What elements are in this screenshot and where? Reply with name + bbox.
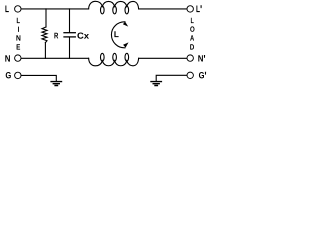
inductor top winding loop 3 bbox=[125, 6, 129, 14]
resistor R1 zigzag bbox=[42, 27, 47, 43]
inductor top winding loop 1 bbox=[101, 6, 105, 14]
label term-Np-p bbox=[204, 55, 205, 58]
coupling arrowhead bottom bbox=[123, 42, 128, 47]
terminal N bbox=[15, 55, 21, 61]
wire top rail left (L to choke) bbox=[21, 8, 89, 10]
inductor top winding humps bbox=[89, 1, 139, 9]
label load-D bbox=[190, 44, 194, 49]
wire ground right (G' to earth) bbox=[156, 75, 187, 81]
terminal G' bbox=[187, 72, 193, 78]
capacitor Cx top plate bbox=[64, 32, 75, 34]
label lbl-Cx bbox=[77, 33, 89, 39]
label term-Gp-p bbox=[205, 72, 206, 75]
coupling arrowhead top bbox=[123, 22, 128, 27]
terminal G bbox=[15, 72, 21, 78]
inductor bottom winding loop 1 bbox=[101, 53, 105, 61]
terminal L bbox=[15, 6, 21, 12]
label term-Lp-p bbox=[201, 5, 202, 8]
inductor bottom winding loop 2 bbox=[113, 53, 117, 61]
label line-N bbox=[16, 35, 20, 40]
inductor bottom winding humps bbox=[89, 58, 139, 66]
resistor R1 leads bbox=[44, 9, 47, 58]
label term-Np-N bbox=[198, 55, 203, 61]
inductor bottom winding loop 3 bbox=[125, 53, 129, 61]
capacitor Cx bottom plate bbox=[64, 36, 75, 38]
wire ground left (G to earth) bbox=[21, 75, 56, 81]
capacitor Cx leads bbox=[69, 9, 71, 58]
label load-A bbox=[190, 35, 194, 40]
terminal L' bbox=[187, 6, 193, 12]
label line-I bbox=[17, 27, 20, 32]
terminal N' bbox=[187, 55, 193, 61]
ground symbol right bbox=[151, 82, 161, 86]
label line-E bbox=[17, 44, 21, 49]
wire bottom rail left (N to choke) bbox=[21, 57, 89, 59]
label load-O bbox=[190, 26, 194, 31]
label term-G bbox=[6, 72, 11, 78]
inductor top winding loop 2 bbox=[113, 6, 117, 14]
ground symbol left bbox=[51, 82, 61, 86]
label lbl-R bbox=[54, 33, 58, 39]
label term-N bbox=[5, 55, 10, 61]
coupling arrow arc L bbox=[111, 22, 125, 48]
label lbl-L bbox=[114, 31, 118, 37]
wire bottom rail right (choke to N') bbox=[139, 57, 187, 59]
label line-L bbox=[17, 18, 20, 23]
label load-L bbox=[191, 18, 194, 23]
wire top rail right (choke to L') bbox=[139, 8, 187, 10]
label term-L bbox=[5, 6, 8, 13]
label term-Lp-L bbox=[196, 6, 199, 13]
label term-Gp-G bbox=[199, 72, 204, 78]
